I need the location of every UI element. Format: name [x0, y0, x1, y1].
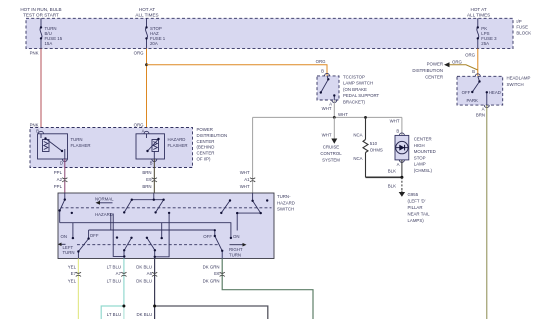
svg-text:510: 510 [370, 141, 378, 146]
svg-text:PILLAR: PILLAR [408, 205, 423, 210]
svg-text:DK GRN: DK GRN [203, 278, 220, 283]
svg-text:(ON BRAKE: (ON BRAKE [343, 87, 367, 92]
svg-text:HOT AT: HOT AT [471, 7, 487, 12]
svg-text:ORG: ORG [465, 52, 476, 57]
svg-text:NCA: NCA [353, 132, 362, 137]
svg-text:TURN: TURN [71, 137, 83, 142]
svg-text:PEDAL SUPPORT: PEDAL SUPPORT [343, 93, 380, 98]
svg-text:OHMS: OHMS [370, 148, 383, 153]
svg-text:HOT AT: HOT AT [139, 7, 155, 12]
svg-text:CONTROL: CONTROL [320, 151, 342, 156]
svg-text:POWER: POWER [427, 62, 443, 67]
svg-text:ORG: ORG [134, 51, 145, 56]
svg-text:TURN: TURN [63, 250, 75, 255]
svg-text:BLK: BLK [388, 169, 396, 174]
svg-text:E7: E7 [71, 271, 77, 276]
svg-text:FLASHER: FLASHER [71, 143, 91, 148]
svg-text:OFF: OFF [203, 234, 212, 239]
svg-text:WHT: WHT [390, 118, 400, 123]
svg-text:OFF: OFF [462, 90, 471, 95]
svg-text:FLASHER: FLASHER [168, 143, 188, 148]
svg-text:HIGH: HIGH [414, 143, 425, 148]
svg-text:ALL TIMES: ALL TIMES [135, 13, 158, 18]
svg-text:MOUNTED: MOUNTED [414, 149, 436, 154]
svg-text:LT BLU: LT BLU [107, 278, 121, 283]
svg-text:A1: A1 [244, 177, 250, 182]
svg-text:HAZARD: HAZARD [277, 200, 295, 205]
svg-text:BRN: BRN [142, 170, 151, 175]
svg-text:ORG: ORG [452, 59, 463, 64]
svg-text:A: A [482, 107, 485, 112]
svg-text:POWER: POWER [197, 127, 213, 132]
svg-text:SWITCH: SWITCH [507, 82, 524, 87]
svg-text:A6: A6 [147, 271, 153, 276]
svg-text:CENTER: CENTER [197, 139, 215, 144]
svg-text:SWITCH: SWITCH [277, 207, 294, 212]
svg-text:HAZARD: HAZARD [168, 137, 186, 142]
svg-text:YEL: YEL [68, 265, 77, 270]
svg-text:CENTER: CENTER [425, 75, 443, 80]
svg-text:CRUISE: CRUISE [323, 144, 340, 149]
svg-text:OFF: OFF [90, 233, 99, 238]
svg-text:PARK: PARK [466, 98, 478, 103]
svg-text:WHT: WHT [338, 112, 348, 117]
svg-text:DK BLU: DK BLU [136, 278, 152, 283]
svg-text:RIGHT: RIGHT [229, 247, 243, 252]
svg-text:(LEFT 'D': (LEFT 'D' [408, 199, 426, 204]
svg-text:PNK: PNK [30, 123, 39, 128]
svg-text:BRN: BRN [142, 184, 151, 189]
svg-text:CENTER: CENTER [197, 151, 215, 156]
svg-text:TEST OR START: TEST OR START [23, 13, 59, 18]
svg-text:E9: E9 [146, 177, 152, 182]
svg-text:BLK: BLK [388, 183, 396, 188]
svg-text:YEL: YEL [68, 278, 77, 283]
svg-text:TURN-: TURN- [277, 194, 291, 199]
svg-text:B: B [150, 161, 153, 166]
svg-text:DK GRN: DK GRN [203, 265, 220, 270]
svg-text:LT BLU: LT BLU [107, 265, 121, 270]
svg-text:CENTER: CENTER [414, 137, 432, 142]
svg-text:B: B [472, 69, 475, 74]
svg-text:LAMP: LAMP [414, 162, 426, 167]
svg-text:NCA: NCA [353, 156, 362, 161]
svg-text:A2: A2 [57, 177, 63, 182]
svg-text:DK BLU: DK BLU [137, 312, 153, 317]
svg-text:HAZARD: HAZARD [95, 212, 113, 217]
svg-text:25A: 25A [481, 41, 489, 46]
svg-text:STOP: STOP [414, 155, 426, 160]
svg-text:(CHMSL): (CHMSL) [414, 168, 433, 173]
svg-text:ORG: ORG [134, 123, 145, 128]
svg-text:ALL TIMES: ALL TIMES [467, 13, 490, 18]
svg-text:DISTRIBUTION: DISTRIBUTION [412, 68, 443, 73]
svg-text:PPL: PPL [54, 170, 63, 175]
svg-text:ON: ON [61, 234, 68, 239]
svg-text:HOT IN RUN, BULB: HOT IN RUN, BULB [20, 7, 61, 12]
svg-text:DISTRIBUTION: DISTRIBUTION [197, 133, 228, 138]
svg-text:WHT: WHT [240, 184, 250, 189]
svg-text:WHT: WHT [322, 132, 332, 137]
svg-text:LAMP SWITCH: LAMP SWITCH [343, 81, 373, 86]
svg-text:PPL: PPL [54, 184, 63, 189]
svg-text:DK BLU: DK BLU [136, 265, 152, 270]
svg-text:D: D [60, 161, 63, 166]
svg-text:I/P: I/P [516, 19, 521, 24]
svg-text:B: B [321, 69, 324, 74]
svg-text:BRN: BRN [476, 113, 485, 118]
svg-text:PNK: PNK [30, 51, 39, 56]
svg-text:G955: G955 [408, 192, 419, 197]
svg-text:HEAD: HEAD [489, 90, 501, 95]
svg-text:FUSE: FUSE [516, 25, 528, 30]
svg-text:LT BLU: LT BLU [107, 312, 121, 317]
svg-text:E6: E6 [214, 271, 220, 276]
svg-text:NEAR TAIL: NEAR TAIL [408, 212, 431, 217]
svg-text:TCC/STOP: TCC/STOP [343, 75, 365, 80]
svg-text:A: A [397, 162, 400, 167]
svg-text:TURN: TURN [229, 253, 241, 258]
svg-text:A7: A7 [116, 271, 122, 276]
svg-text:SYSTEM: SYSTEM [322, 157, 340, 162]
svg-text:WHT: WHT [322, 106, 332, 111]
svg-text:ORG: ORG [316, 59, 327, 64]
svg-text:15A: 15A [45, 41, 53, 46]
svg-text:(BEHIND: (BEHIND [197, 145, 215, 150]
svg-text:LAMPS): LAMPS) [408, 218, 425, 223]
svg-text:BRACKET): BRACKET) [343, 99, 366, 104]
svg-text:OF I/P): OF I/P) [197, 157, 212, 162]
svg-text:BLOCK: BLOCK [516, 30, 531, 35]
svg-text:NORMAL: NORMAL [95, 197, 114, 202]
svg-text:20A: 20A [150, 41, 158, 46]
svg-text:WHT: WHT [240, 170, 250, 175]
svg-text:B: B [396, 129, 399, 134]
svg-text:HEADLAMP: HEADLAMP [507, 76, 531, 81]
svg-text:ON: ON [233, 234, 240, 239]
